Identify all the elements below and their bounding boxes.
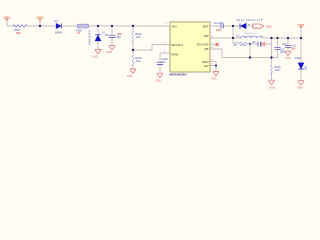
svg-text:1M0: 1M0: [136, 36, 141, 39]
svg-text:7: 7: [212, 43, 213, 45]
svg-text:2A: 2A: [77, 32, 80, 35]
svg-text:GND: GND: [211, 77, 217, 80]
svg-text:2: 2: [166, 23, 167, 25]
svg-text:6: 6: [212, 47, 213, 49]
svg-text:1: 1: [213, 23, 214, 25]
svg-text:CHG: CHG: [266, 25, 272, 28]
svg-text:332k: 332k: [136, 60, 142, 63]
svg-text:100k: 100k: [240, 44, 248, 47]
svg-text:C12: C12: [282, 43, 287, 46]
svg-text:GND: GND: [155, 79, 161, 82]
svg-text:SMBJ33CA: SMBJ33CA: [89, 30, 92, 45]
svg-text:FB: FB: [205, 47, 209, 51]
svg-text:NRS8040 4u7: NRS8040 4u7: [244, 33, 259, 35]
svg-text:50V: 50V: [117, 36, 122, 39]
svg-text:4: 4: [212, 60, 213, 62]
svg-text:D101 SS310-LTP: D101 SS310-LTP: [237, 20, 263, 22]
svg-text:2n2: 2n2: [162, 61, 167, 64]
svg-text:C4 100n: C4 100n: [215, 22, 225, 25]
svg-text:SW: SW: [204, 34, 209, 38]
svg-text:GND: GND: [106, 51, 112, 54]
svg-text:GND: GND: [127, 75, 133, 78]
svg-text:VIN: VIN: [172, 25, 177, 29]
svg-text:GND: GND: [269, 86, 275, 89]
svg-text:5: 5: [164, 51, 165, 53]
svg-text:50V: 50V: [261, 45, 266, 48]
svg-text:9: 9: [212, 64, 213, 66]
svg-text:B340A: B340A: [55, 31, 63, 34]
svg-text:RON: RON: [172, 53, 179, 57]
svg-text:LMR14050SDDA: LMR14050SDDA: [169, 73, 187, 76]
svg-text:GND: GND: [92, 55, 98, 58]
svg-text:GND: GND: [285, 57, 291, 60]
svg-text:24k9: 24k9: [275, 69, 281, 72]
svg-text:D102: D102: [295, 57, 302, 60]
svg-text:EP: EP: [204, 64, 208, 68]
svg-text:GND: GND: [297, 87, 303, 90]
svg-text:BST: BST: [203, 25, 209, 29]
svg-text:3: 3: [165, 43, 166, 45]
svg-text:PGOOD: PGOOD: [197, 43, 209, 47]
svg-text:10uF: 10uF: [280, 51, 286, 54]
svg-text:1R0: 1R0: [16, 32, 21, 35]
svg-text:100n: 100n: [216, 29, 222, 32]
svg-text:5V1: 5V1: [305, 65, 308, 70]
svg-text:EN/UVLO: EN/UVLO: [172, 43, 183, 47]
svg-text:25V: 25V: [291, 48, 296, 51]
svg-text:8: 8: [212, 36, 213, 38]
